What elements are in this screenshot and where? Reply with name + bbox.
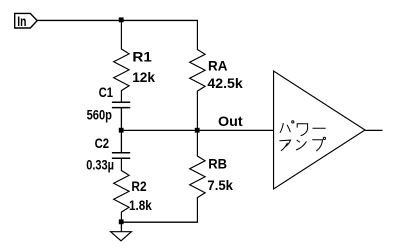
capacitor C1 [112, 101, 130, 103]
junction Out node [195, 128, 200, 133]
wire amp output [365, 129, 383, 131]
svg-text:42.5k: 42.5k [207, 75, 243, 91]
resistor R1 [114, 20, 129, 102]
svg-text:12k: 12k [132, 69, 155, 85]
label アンプ (drawn strokes) [280, 137, 326, 151]
wire middle (node to amp input) [121, 129, 274, 131]
resistor R2 [114, 159, 129, 223]
svg-text:1.8k: 1.8k [129, 197, 152, 213]
svg-text:Out: Out [218, 113, 243, 129]
svg-text:0.33µ: 0.33µ [86, 157, 114, 173]
resistor RB [190, 130, 205, 222]
junction C1/C2 node [119, 128, 124, 133]
label パワー (drawn strokes) [280, 121, 325, 136]
svg-text:7.5k: 7.5k [207, 177, 233, 193]
junction ground node [119, 219, 124, 224]
svg-text:R1: R1 [132, 49, 152, 65]
svg-text:In: In [17, 13, 26, 29]
wire bottom (R2 node to RB) [121, 221, 198, 223]
capacitor C2 [120, 130, 122, 152]
resistor RA [190, 20, 205, 130]
ground [120, 222, 122, 232]
svg-text:RB: RB [208, 155, 227, 171]
wire top (In to RA branch corner) [37, 19, 198, 21]
svg-text:RA: RA [208, 57, 227, 73]
svg-text:560p: 560p [87, 106, 112, 122]
svg-text:C2: C2 [95, 135, 110, 151]
op-amp U1 power amp triangle [274, 71, 365, 189]
port In [15, 13, 38, 28]
svg-text:C1: C1 [99, 84, 114, 100]
junction top node [119, 17, 124, 22]
svg-text:R2: R2 [131, 178, 146, 194]
